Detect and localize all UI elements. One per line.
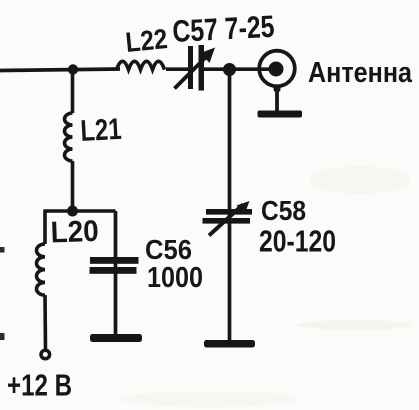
svg-text:C57 7-25: C57 7-25 — [172, 9, 276, 49]
svg-text:C56: C56 — [145, 234, 192, 265]
wire: L21 lower lead — [71, 161, 75, 211]
wire: C58 vertical — [228, 70, 232, 342]
capacitor C57 plate right — [199, 45, 205, 91]
ground bar under antenna — [258, 111, 303, 118]
capacitor C58 arrow — [209, 205, 243, 236]
ground bar under C58 — [204, 340, 255, 348]
svg-text:C58: C58 — [261, 195, 306, 226]
wire: horizontal L20-C56 — [44, 209, 116, 213]
capacitor C58 plate bottom — [203, 218, 251, 224]
inductor L22 — [117, 61, 165, 69]
wire: L20 upper lead — [43, 210, 47, 245]
node junction at L21 top — [68, 64, 78, 74]
wire: antenna stem — [275, 87, 279, 111]
svg-text:Антенна: Антенна — [308, 57, 413, 89]
node junction at C58 top — [223, 63, 236, 76]
capacitor C57 plate left — [188, 46, 193, 89]
inductor L21 — [65, 113, 73, 161]
capacitor C56 plate top — [90, 257, 139, 264]
wire stub at left edge (cropped) — [0, 247, 5, 253]
wire: C56 vertical — [114, 211, 118, 334]
wire: top horizontal left segment — [0, 69, 120, 71]
svg-text:20-120: 20-120 — [259, 224, 336, 259]
node junction L21/L20/C56 — [67, 206, 78, 217]
capacitor C58 plate top — [206, 209, 252, 215]
wire: C57 to antenna — [204, 67, 270, 71]
ground bar under C56 — [90, 334, 142, 342]
svg-text:+12 В: +12 В — [7, 368, 72, 403]
wire: between L22 and C57 — [166, 67, 189, 71]
wire: L20 lower lead — [43, 295, 47, 350]
svg-text:L22: L22 — [124, 23, 169, 58]
wire: L21 upper lead — [71, 70, 75, 114]
capacitor C56 plate bottom — [90, 267, 137, 274]
inductor L20 — [37, 244, 46, 295]
svg-text:L20: L20 — [50, 215, 99, 250]
antenna connector circle — [259, 51, 295, 87]
svg-text:1000: 1000 — [147, 262, 203, 294]
wire stub at left edge lower (cropped) — [0, 333, 5, 340]
capacitor C57 arrow — [175, 55, 209, 89]
terminal +12V — [41, 350, 50, 359]
svg-text:L21: L21 — [80, 113, 123, 148]
